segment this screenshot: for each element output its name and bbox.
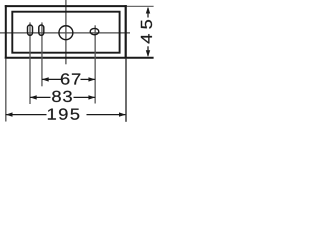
mounting slot 2: [39, 25, 44, 35]
extension line through side hole: [94, 25, 96, 103]
center hole: [59, 26, 73, 40]
extension line through slot 2: [41, 22, 43, 86]
dimension line 195 (left segment with arrow): [6, 114, 47, 116]
side hole (horizontal oval): [90, 28, 99, 34]
dimension label 195: [48, 108, 79, 119]
dimension 45 up arrow: [147, 8, 149, 18]
dimension label 83: [52, 91, 72, 102]
dimension label 67: [61, 73, 80, 84]
vertical centerline through center hole: [65, 0, 67, 64]
dimension line 67 (right segment with arrow): [81, 78, 96, 80]
horizontal centerline: [0, 32, 130, 34]
dimension label 45 (rotated): [141, 20, 152, 43]
dimension line 195 (right segment with arrow): [87, 114, 126, 116]
dimension line 83 (right segment with arrow): [74, 96, 96, 98]
45 top extension line: [127, 5, 154, 7]
inner panel outline: [12, 12, 119, 53]
dimension line 67 (left segment with arrow): [42, 78, 61, 80]
outer body outline (left edge, extended down as 195 extension line): [5, 5, 7, 59]
dimension line 83 (left segment with arrow): [30, 96, 51, 98]
outer body outline (top edge with 45-extension to right): [5, 5, 127, 7]
outer body outline (bottom edge with 45-extension to right): [5, 57, 154, 59]
extension line through slot 1: [29, 22, 31, 104]
dimension 45 down arrow: [147, 46, 149, 56]
outer body outline (right edge, extended down as 195 extension line): [125, 5, 127, 59]
mounting slot 1: [28, 25, 33, 35]
